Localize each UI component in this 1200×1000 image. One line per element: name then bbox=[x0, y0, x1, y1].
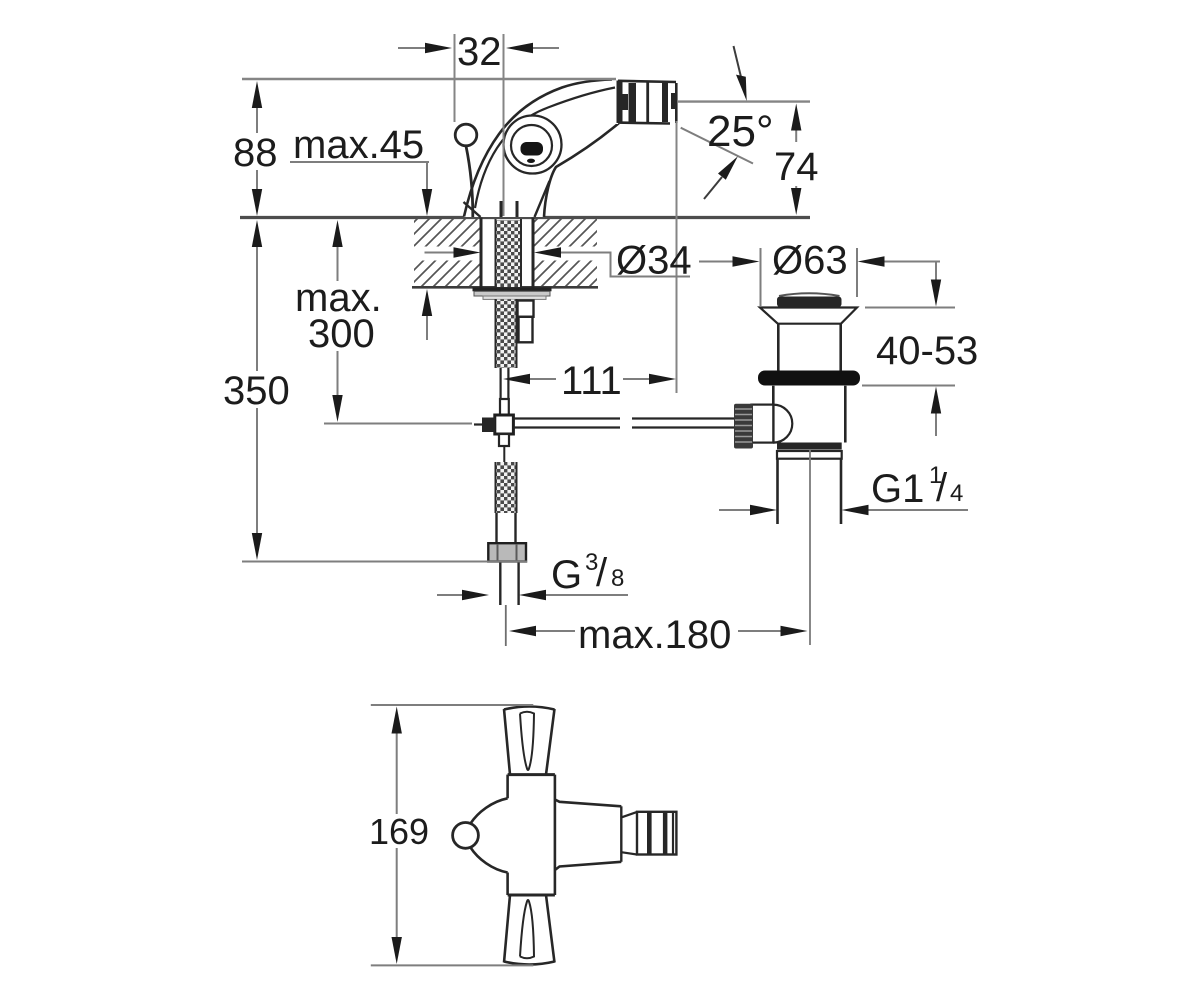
svg-text:/: / bbox=[596, 551, 608, 595]
svg-text:40-53: 40-53 bbox=[876, 329, 978, 373]
svg-text:32: 32 bbox=[457, 30, 502, 74]
svg-text:350: 350 bbox=[223, 369, 290, 413]
svg-text:max.45: max.45 bbox=[293, 123, 424, 167]
svg-text:Ø34: Ø34 bbox=[616, 239, 692, 283]
svg-text:25°: 25° bbox=[707, 107, 774, 156]
svg-text:300: 300 bbox=[308, 312, 375, 356]
svg-text:74: 74 bbox=[774, 145, 819, 189]
svg-text:4: 4 bbox=[950, 480, 963, 507]
svg-text:169: 169 bbox=[369, 811, 429, 852]
svg-text:G: G bbox=[551, 553, 582, 597]
svg-text:88: 88 bbox=[233, 131, 278, 175]
svg-text:111: 111 bbox=[561, 359, 622, 403]
svg-text:max.180: max.180 bbox=[578, 613, 731, 657]
svg-text:Ø63: Ø63 bbox=[772, 239, 848, 283]
svg-text:/: / bbox=[936, 466, 948, 510]
svg-text:8: 8 bbox=[611, 565, 624, 592]
svg-text:G1: G1 bbox=[871, 467, 924, 511]
